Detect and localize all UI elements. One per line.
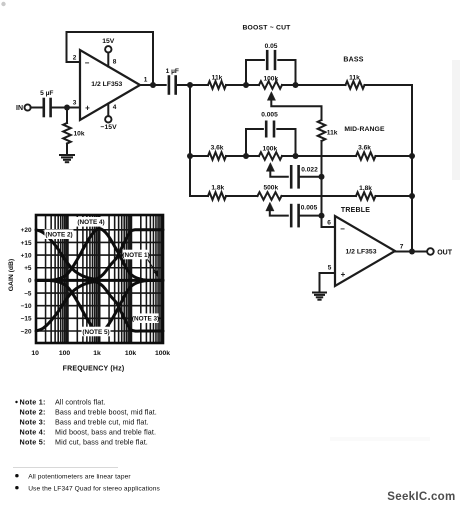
svg-text:Note 5:: Note 5:	[20, 438, 46, 447]
svg-text:MID-RANGE: MID-RANGE	[344, 126, 385, 133]
svg-text:1/2 LF353: 1/2 LF353	[91, 81, 122, 88]
svg-text:−: −	[340, 225, 345, 234]
svg-text:−10: −10	[21, 303, 32, 310]
svg-text:Mid boost, bass and treble fla: Mid boost, bass and treble flat.	[55, 428, 156, 437]
svg-text:(NOTE 1): (NOTE 1)	[122, 252, 149, 259]
svg-text:−: −	[85, 59, 90, 68]
svg-text:6: 6	[327, 220, 331, 227]
svg-text:All potentiometers are linear: All potentiometers are linear taper	[28, 473, 131, 480]
svg-text:IN: IN	[16, 105, 23, 112]
svg-text:8: 8	[113, 59, 117, 66]
svg-text:+: +	[341, 270, 346, 279]
svg-text:Bass and treble cut, mid flat.: Bass and treble cut, mid flat.	[55, 418, 149, 427]
svg-text:−15V: −15V	[101, 124, 118, 131]
svg-text:3.6k: 3.6k	[211, 145, 224, 152]
svg-text:4: 4	[113, 104, 117, 111]
svg-text:GAIN (dB): GAIN (dB)	[8, 259, 15, 291]
svg-text:1.8k: 1.8k	[359, 185, 372, 192]
svg-text:5 µF: 5 µF	[40, 90, 53, 97]
svg-text:10k: 10k	[74, 131, 85, 138]
svg-text:3.6k: 3.6k	[358, 145, 371, 152]
svg-text:(NOTE 2): (NOTE 2)	[45, 232, 72, 239]
svg-text:All controls flat.: All controls flat.	[55, 398, 106, 407]
svg-text:11k: 11k	[212, 75, 223, 82]
svg-text:−15: −15	[21, 316, 32, 323]
svg-text:(NOTE 3): (NOTE 3)	[132, 316, 159, 323]
svg-text:Mid cut, bass and treble flat.: Mid cut, bass and treble flat.	[55, 438, 148, 447]
svg-text:0: 0	[28, 278, 32, 285]
svg-text:7: 7	[400, 244, 404, 251]
svg-text:Note 3:: Note 3:	[20, 418, 46, 427]
svg-text:BOOST ~ CUT: BOOST ~ CUT	[242, 25, 291, 32]
svg-text:3: 3	[73, 100, 77, 107]
svg-text:5: 5	[328, 265, 332, 272]
svg-text:Note 4:: Note 4:	[20, 428, 46, 437]
svg-text:2: 2	[73, 55, 77, 62]
svg-text:1k: 1k	[93, 350, 101, 357]
svg-text:Note 2:: Note 2:	[20, 408, 46, 417]
svg-text:1/2 LF353: 1/2 LF353	[346, 249, 377, 256]
svg-text:FREQUENCY (Hz): FREQUENCY (Hz)	[63, 366, 125, 373]
svg-text:Bass and treble boost, mid fla: Bass and treble boost, mid flat.	[55, 408, 157, 417]
svg-text:100: 100	[59, 350, 71, 357]
svg-text:+20: +20	[21, 227, 32, 234]
svg-text:OUT: OUT	[437, 250, 453, 257]
svg-text:1 µF: 1 µF	[166, 68, 179, 75]
svg-text:(NOTE 4): (NOTE 4)	[77, 219, 104, 226]
svg-text:−20: −20	[21, 328, 32, 335]
svg-text:0.005: 0.005	[301, 205, 318, 212]
svg-text:1.8k: 1.8k	[211, 185, 224, 192]
svg-text:100k: 100k	[262, 146, 277, 153]
svg-text:+: +	[85, 104, 90, 113]
svg-text:100k: 100k	[155, 350, 170, 357]
svg-text:0.005: 0.005	[261, 112, 278, 119]
svg-text:0.022: 0.022	[301, 166, 318, 173]
svg-text:TREBLE: TREBLE	[341, 207, 370, 214]
svg-text:15V: 15V	[102, 38, 115, 45]
svg-text:+15: +15	[21, 240, 32, 247]
svg-text:100k: 100k	[263, 76, 278, 83]
svg-text:500k: 500k	[263, 185, 278, 192]
svg-text:1: 1	[144, 77, 148, 84]
svg-text:BASS: BASS	[343, 57, 363, 64]
svg-text:SeekIC.com: SeekIC.com	[387, 491, 455, 503]
svg-text:+10: +10	[21, 252, 32, 259]
svg-text:Note 1:: Note 1:	[20, 398, 46, 407]
svg-text:10k: 10k	[125, 350, 137, 357]
svg-text:11k: 11k	[327, 130, 338, 137]
svg-text:11k: 11k	[349, 75, 360, 82]
svg-text:+5: +5	[24, 265, 32, 272]
svg-text:−5: −5	[24, 290, 32, 297]
svg-text:(NOTE 5): (NOTE 5)	[82, 329, 109, 336]
svg-text:0.05: 0.05	[265, 43, 278, 50]
svg-text:Use the LF347 Quad for stereo: Use the LF347 Quad for stereo applicatio…	[28, 485, 160, 492]
svg-text:10: 10	[31, 350, 39, 357]
